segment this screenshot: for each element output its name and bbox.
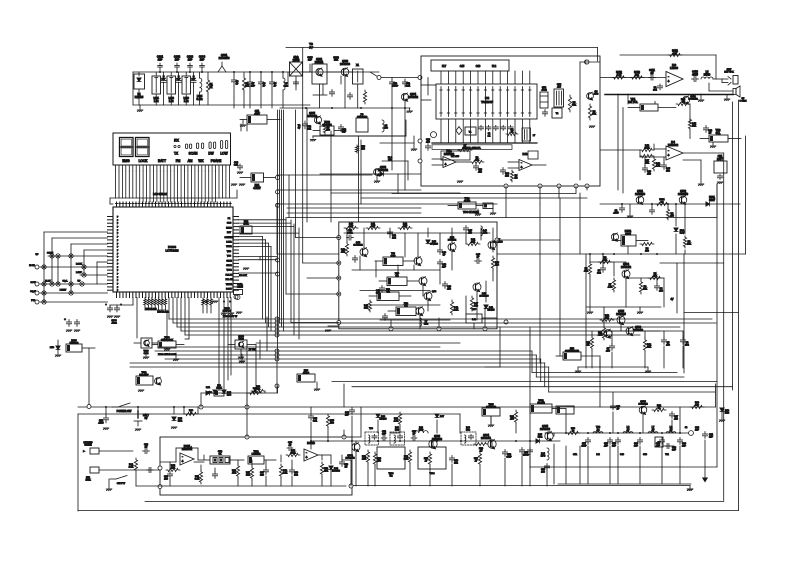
svg-text:2SC2412: 2SC2412 — [688, 99, 698, 101]
svg-text:103: 103 — [505, 176, 509, 178]
resistor R308 — [470, 157, 484, 164]
svg-text:SQ-L: SQ-L — [62, 281, 68, 283]
wire fe stage wires — [303, 72, 367, 108]
wire vco rail2 — [352, 270, 450, 320]
wire sense rail — [586, 306, 661, 308]
capacitor C332 — [64, 318, 72, 332]
resistor R408 — [652, 157, 660, 171]
component X303 trim — [356, 114, 368, 132]
capacitor C641 — [656, 438, 665, 448]
transistor Q305 osc — [307, 112, 322, 124]
svg-text:X1: X1 — [356, 64, 360, 67]
wire bus h y204 — [277, 203, 497, 205]
component X303 4.19M — [234, 283, 244, 300]
capacitor C631 — [411, 431, 417, 441]
wire pwr rail2 — [578, 329, 648, 367]
capacitor C501 — [613, 206, 624, 215]
svg-text:103: 103 — [541, 472, 545, 474]
svg-text:2.2K: 2.2K — [454, 310, 459, 312]
svg-text:RB4: RB4 — [178, 421, 183, 423]
svg-text:10K: 10K — [692, 126, 696, 128]
resistor R342 — [398, 224, 412, 230]
resistor R628 — [195, 470, 203, 484]
svg-text:*: * — [105, 303, 106, 307]
component Q300 trim — [228, 336, 256, 359]
svg-text:10K: 10K — [572, 105, 576, 107]
svg-text:1000P: 1000P — [392, 86, 399, 88]
node ANT jack — [685, 427, 700, 435]
wire tx bottom rail — [558, 483, 691, 485]
wire audio feedback rail — [620, 55, 716, 79]
svg-text:10K: 10K — [362, 459, 366, 461]
svg-text:6V: 6V — [145, 417, 148, 420]
resistor R347 — [470, 296, 478, 311]
capacitor C620 — [143, 444, 150, 454]
wire misc v — [530, 240, 560, 468]
transistor Q401 mute — [682, 96, 698, 104]
svg-text:2SC2412: 2SC2412 — [345, 458, 355, 460]
svg-text:P: P — [117, 233, 119, 235]
wire charge conn — [622, 204, 685, 254]
component box K601 — [482, 404, 500, 427]
resistor R627 — [320, 462, 328, 476]
resistor R504 — [640, 242, 654, 252]
wire bus h355 — [160, 355, 684, 377]
svg-text:455K: 455K — [254, 113, 260, 116]
svg-text:2.2K: 2.2K — [129, 467, 134, 469]
svg-text:P: P — [117, 284, 119, 286]
svg-text:1U: 1U — [345, 467, 348, 469]
component can T603 — [377, 447, 405, 478]
capacitor C503 — [597, 266, 605, 275]
wire bus h y217 — [287, 184, 717, 218]
svg-text:-: - — [668, 148, 670, 152]
svg-text:18P: 18P — [158, 58, 163, 62]
svg-text:UP: UP — [77, 281, 81, 283]
wire v600 — [599, 359, 601, 407]
svg-text:30P: 30P — [192, 79, 196, 81]
capacitor C405 — [661, 163, 670, 173]
svg-text:P1: P1 — [228, 218, 231, 220]
resistor R632 — [404, 450, 412, 464]
svg-text:EXT SPK: EXT SPK — [724, 72, 734, 74]
svg-text:102: 102 — [454, 463, 458, 465]
svg-text:LIGHT: LIGHT — [60, 290, 67, 292]
svg-text:8P: 8P — [413, 434, 416, 436]
wire charge rail — [600, 203, 740, 205]
resistor block RB301 — [240, 173, 277, 190]
inductor L305 — [283, 72, 289, 90]
svg-text:JACK: JACK — [85, 478, 91, 481]
wire bottom bus y502 — [145, 501, 724, 503]
wire mic501 conn — [581, 356, 600, 368]
svg-text:1000P: 1000P — [523, 455, 530, 457]
node col277 b — [276, 190, 280, 276]
resistor R404 — [676, 99, 690, 106]
wire bus v x361 — [360, 140, 362, 204]
svg-text:TRIM: TRIM — [238, 339, 244, 341]
svg-text:P: P — [117, 250, 119, 252]
ground cluster b — [221, 312, 242, 315]
svg-text:S812: S812 — [625, 233, 631, 236]
svg-text:P: P — [117, 220, 119, 222]
resistor R641 — [690, 402, 704, 409]
svg-text:P: P — [117, 247, 119, 249]
wire v247 route — [241, 124, 247, 131]
svg-text:100K: 100K — [290, 453, 296, 455]
component TV1 trim — [655, 437, 663, 447]
svg-text:47U: 47U — [606, 351, 610, 353]
component det diamond — [456, 127, 462, 135]
wire osc right edge — [405, 120, 407, 136]
svg-text:470: 470 — [361, 149, 365, 151]
svg-text:HOLD: HOLD — [226, 227, 232, 229]
svg-text:4P: 4P — [289, 445, 292, 447]
inductor L606 — [623, 426, 633, 433]
capacitor C331 — [114, 303, 121, 318]
ground cluster a — [203, 301, 218, 303]
svg-text:SQL: SQL — [716, 132, 721, 135]
svg-text:47K: 47K — [341, 252, 345, 254]
component can T604 — [418, 447, 446, 475]
resistor R405 — [688, 118, 696, 130]
svg-text:2SC2412: 2SC2412 — [353, 245, 363, 247]
svg-text:1K: 1K — [587, 345, 590, 347]
resistor R344 — [466, 239, 480, 246]
ground below MCU a — [143, 353, 149, 359]
capacitor C406 — [642, 166, 651, 176]
ground g1 — [173, 359, 179, 361]
wire IC1 bottom bold rail — [432, 143, 537, 150]
text sense label — [671, 298, 674, 301]
svg-text:MIC AMP: MIC AMP — [139, 374, 149, 377]
svg-text:330P: 330P — [506, 457, 512, 459]
inductor L607 — [648, 426, 658, 433]
ground charge — [627, 204, 633, 218]
wire bus v277 — [277, 110, 279, 393]
capacitor C622 — [164, 472, 173, 481]
component xtal X340 — [379, 273, 419, 286]
wire k60x conn — [566, 406, 574, 433]
capacitor C626 — [339, 460, 348, 469]
svg-text:.01x2: .01x2 — [111, 323, 117, 325]
wire preamp-tx rail y486 — [352, 485, 690, 487]
wire mid verticals3 — [247, 317, 267, 407]
transistor Q343 — [419, 277, 427, 286]
svg-text:T92: T92 — [665, 454, 669, 456]
resistor R402 — [612, 71, 626, 79]
svg-text:DTC: DTC — [594, 94, 599, 96]
wire IC1 outer box — [421, 56, 600, 186]
svg-text:P: P — [117, 267, 119, 269]
wire bus h351 — [155, 351, 677, 373]
svg-text:NJM2902: NJM2902 — [444, 153, 455, 156]
svg-text:PLL CK: PLL CK — [226, 279, 233, 281]
node preamp right — [158, 484, 353, 489]
wire bus h327 — [177, 326, 680, 328]
svg-text:102: 102 — [392, 238, 396, 240]
component MIC501 condenser — [556, 348, 581, 360]
svg-text:RST: RST — [227, 232, 232, 234]
node VCO left pin2 — [337, 261, 341, 265]
wire reg drop — [627, 246, 629, 254]
capacitor C646 — [669, 412, 678, 421]
svg-text:KV1235: KV1235 — [135, 96, 144, 99]
antenna arrow — [703, 478, 707, 482]
svg-text:6.8K: 6.8K — [283, 473, 288, 475]
svg-text:D61: D61 — [206, 387, 211, 389]
capacitor C342 — [352, 256, 357, 263]
wire bottom IF rail — [280, 107, 410, 109]
svg-text:8P: 8P — [443, 255, 446, 257]
svg-text:10K: 10K — [256, 389, 260, 391]
svg-text:4V: 4V — [671, 298, 674, 301]
component block filt2 — [528, 151, 538, 159]
wire recv to vco v506 — [506, 186, 587, 218]
svg-text:L7: L7 — [533, 135, 536, 137]
node bj — [234, 295, 238, 299]
svg-text:OSC: OSC — [391, 256, 396, 258]
svg-text:P: P — [117, 273, 119, 275]
diode D605 — [536, 434, 543, 443]
node pwr b — [199, 405, 203, 409]
component box K602 — [530, 400, 566, 413]
svg-text:WX: WX — [198, 159, 204, 163]
resistor R602 — [248, 388, 262, 395]
svg-text:OSC: OSC — [227, 223, 232, 225]
diode D607 — [435, 414, 445, 418]
capacitor C309 — [269, 72, 277, 88]
wire bus h323 — [173, 322, 716, 324]
wire front-end bottom rail — [133, 104, 310, 106]
wire tx out rail — [545, 432, 691, 434]
wire vco drops1 — [347, 228, 493, 257]
svg-text:TEST1: TEST1 — [226, 284, 233, 286]
node at IC1 in — [418, 76, 422, 80]
svg-text:1U: 1U — [650, 72, 653, 75]
wire h174 recv — [320, 173, 421, 175]
svg-text:DW: DW — [208, 152, 213, 156]
svg-text:SCAN: SCAN — [189, 152, 199, 156]
svg-text:8 OHM: 8 OHM — [740, 101, 747, 103]
svg-text:10K: 10K — [687, 244, 691, 246]
resistor R301 — [206, 72, 213, 105]
ground t310b — [490, 209, 496, 215]
capacitor C402 — [653, 84, 662, 92]
svg-text:SW PTT: SW PTT — [117, 483, 126, 485]
svg-text:10K: 10K — [471, 242, 475, 244]
node EXT conn b — [35, 282, 39, 286]
ground IF rail — [407, 108, 413, 113]
svg-text:3K: 3K — [219, 454, 222, 456]
svg-text:10K: 10K — [635, 74, 640, 77]
node preamp top2 — [342, 435, 346, 439]
resistor R501 — [655, 199, 669, 206]
svg-text:47K: 47K — [592, 114, 596, 116]
capacitor C302 18P — [174, 55, 181, 73]
svg-text:RFC: RFC — [541, 456, 546, 458]
text MCU right pin names — [225, 218, 234, 291]
capacitor C638 — [604, 438, 613, 448]
transistor Q301 RF AMP — [218, 53, 230, 72]
svg-text:MA165: MA165 — [380, 418, 388, 421]
svg-text:1.5u: 1.5u — [154, 100, 159, 103]
text VCO label — [463, 211, 479, 214]
svg-text:4.7Kx7: 4.7Kx7 — [253, 187, 261, 190]
svg-text:68K: 68K — [371, 226, 375, 228]
svg-text:68P: 68P — [612, 446, 616, 448]
svg-text:2SC3356: 2SC3356 — [219, 56, 230, 60]
svg-text:BATT: BATT — [158, 159, 166, 163]
svg-text:560: 560 — [330, 423, 334, 425]
wire bus v x289 — [288, 175, 290, 218]
diode D608 — [720, 408, 730, 415]
svg-text:LC7932M: LC7932M — [165, 248, 179, 252]
transistor Q340 — [353, 242, 368, 257]
transistor Q347 buffer — [488, 239, 503, 250]
op-amp IC1 TK10930 body — [436, 84, 537, 119]
jack J602 mic — [85, 467, 160, 481]
svg-text:470: 470 — [377, 461, 381, 463]
capacitor C627 — [212, 472, 217, 479]
diode D604 — [329, 466, 341, 473]
node IC1 left pin2 — [418, 159, 422, 163]
resistor R502 — [666, 208, 674, 220]
resistor R626 — [286, 450, 300, 457]
wire MCU right routes — [239, 220, 300, 331]
ground VCO — [325, 326, 339, 332]
resistor R624 — [246, 466, 254, 480]
svg-text:102: 102 — [294, 475, 298, 477]
capacitor C636 — [541, 464, 550, 474]
node VCO left pin3 — [337, 276, 341, 280]
wire MCU bottom pins — [117, 292, 231, 298]
wire tx cap drops — [566, 446, 680, 484]
wire audio in — [600, 77, 666, 79]
transistor Q346 — [473, 283, 489, 298]
node recv top right — [580, 60, 600, 64]
resistor R403 — [630, 71, 644, 79]
component VCO coil T340 — [375, 253, 415, 266]
wire pwr2 conn — [592, 307, 683, 368]
diode ZD501 — [674, 228, 685, 235]
resistor R303 — [323, 123, 330, 134]
svg-text:T1: T1 — [469, 132, 472, 134]
svg-text:4.7K: 4.7K — [394, 421, 399, 423]
svg-text:10P: 10P — [695, 430, 699, 432]
svg-text:FL2: FL2 — [492, 65, 497, 68]
jack J401 EXT SPK — [713, 69, 738, 85]
svg-text:22P: 22P — [682, 446, 686, 448]
svg-text:TA31136F: TA31136F — [481, 100, 493, 104]
capacitor C308 — [258, 72, 266, 88]
svg-text:22K: 22K — [647, 347, 651, 349]
ground mid a — [173, 353, 179, 361]
svg-text:LCTR: LCTR — [226, 242, 232, 244]
resistor R620 — [129, 458, 138, 472]
svg-text:2SC2412: 2SC2412 — [408, 96, 419, 99]
resistor R601 — [184, 410, 198, 416]
capacitor C601 ant — [702, 432, 713, 479]
svg-text:100P: 100P — [581, 446, 587, 448]
wire MCU left pins — [108, 217, 120, 293]
wire tx conn — [352, 407, 554, 486]
resistor R503 — [683, 236, 691, 248]
wire mid v500 — [485, 327, 500, 367]
svg-text:47K: 47K — [324, 471, 328, 473]
svg-text:104: 104 — [597, 273, 601, 275]
jack J601 phone — [83, 442, 133, 454]
text X300 disp — [223, 300, 232, 313]
transistor Q504 — [621, 263, 632, 279]
node c277 h — [275, 333, 279, 337]
wire tx rail top — [352, 440, 560, 442]
wire v715 drop — [715, 384, 717, 407]
svg-text:FLT: FLT — [442, 65, 447, 68]
svg-text:P: P — [117, 237, 119, 239]
capacitor C345 — [475, 254, 482, 264]
ground IC1 right — [589, 126, 595, 128]
wire top B+ rail TB — [286, 42, 598, 50]
capacitor C644 — [308, 407, 318, 423]
resistor R508 — [639, 280, 647, 294]
resistor R510 — [600, 315, 614, 322]
node IC1 det circle — [431, 132, 437, 138]
connector CN401 batt — [714, 155, 727, 184]
capacitor C632 — [449, 456, 458, 465]
component box K603 — [556, 406, 574, 414]
svg-text:P: P — [117, 260, 119, 262]
ground above MCU right — [231, 184, 245, 186]
resistor R307 — [458, 145, 472, 152]
capacitor C504 — [654, 284, 663, 293]
wire mid v560b — [559, 198, 561, 240]
resistor R513 — [586, 336, 594, 350]
capacitor C635 — [527, 448, 532, 455]
capacitor C311 — [402, 79, 411, 88]
ground g2 — [239, 361, 245, 363]
wire band h160 — [382, 161, 408, 180]
wire recv left wires — [421, 78, 436, 101]
node EXT conn a — [29, 265, 39, 269]
ground txout — [687, 489, 693, 491]
component block top filter — [431, 60, 509, 71]
svg-text:7.2: 7.2 — [389, 476, 393, 478]
wire band vxers — [397, 174, 399, 193]
wire power rail — [78, 406, 600, 408]
svg-text:CR: CR — [386, 292, 390, 294]
svg-text:+: + — [520, 165, 522, 169]
text LCD COM — [153, 193, 167, 196]
resistor R630 — [362, 450, 370, 464]
resistor R639 — [510, 410, 518, 424]
svg-text:FM: FM — [176, 159, 181, 163]
ground front-end — [137, 105, 143, 112]
diode D340 — [426, 240, 439, 246]
transistor Q345 — [416, 307, 424, 316]
svg-text:0.01: 0.01 — [313, 421, 318, 423]
resistor R636 — [566, 428, 580, 435]
capacitor C314 — [234, 162, 243, 174]
svg-text:330: 330 — [474, 306, 478, 308]
wire bus h y190 — [277, 189, 421, 191]
svg-text:*: * — [229, 300, 230, 304]
svg-text:18.25M: 18.25M — [537, 403, 544, 405]
resistor R625 — [279, 464, 287, 478]
component LED301 — [50, 340, 95, 357]
svg-text:A7: A7 — [627, 429, 631, 432]
text FM AM WX PSAVE — [176, 159, 222, 163]
